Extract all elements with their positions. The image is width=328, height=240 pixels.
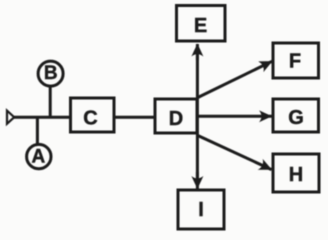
svg-text:B: B [44,63,58,84]
svg-text:D: D [169,108,183,130]
box I [178,190,224,229]
wire: box C to box D [114,116,155,119]
arrow diagonal up to box F [198,61,272,97]
arrow right to box G [197,115,271,118]
arrow diagonal down to box H [198,136,272,170]
svg-text:E: E [194,15,207,37]
wire: stem down to circle A [36,117,39,143]
box F [273,43,319,78]
arrow down to box I [196,172,199,189]
svg-text:F: F [289,50,301,72]
input triangle [7,111,14,124]
svg-text:H: H [289,164,303,186]
arrow up to box E [196,44,199,60]
svg-text:A: A [32,147,46,168]
box E [177,6,226,42]
svg-text:I: I [198,199,204,221]
circle B [38,61,63,86]
box D [155,99,197,133]
svg-text:G: G [288,107,304,129]
box C [71,98,115,132]
svg-text:C: C [83,107,97,129]
box G [273,99,319,132]
wire: stem up to circle B [49,88,52,118]
wire: main horizontal line from triangle to box C [14,116,71,119]
box H [273,154,319,192]
circle A [27,144,51,168]
wire: vertical trunk on right edge of D [196,54,199,179]
